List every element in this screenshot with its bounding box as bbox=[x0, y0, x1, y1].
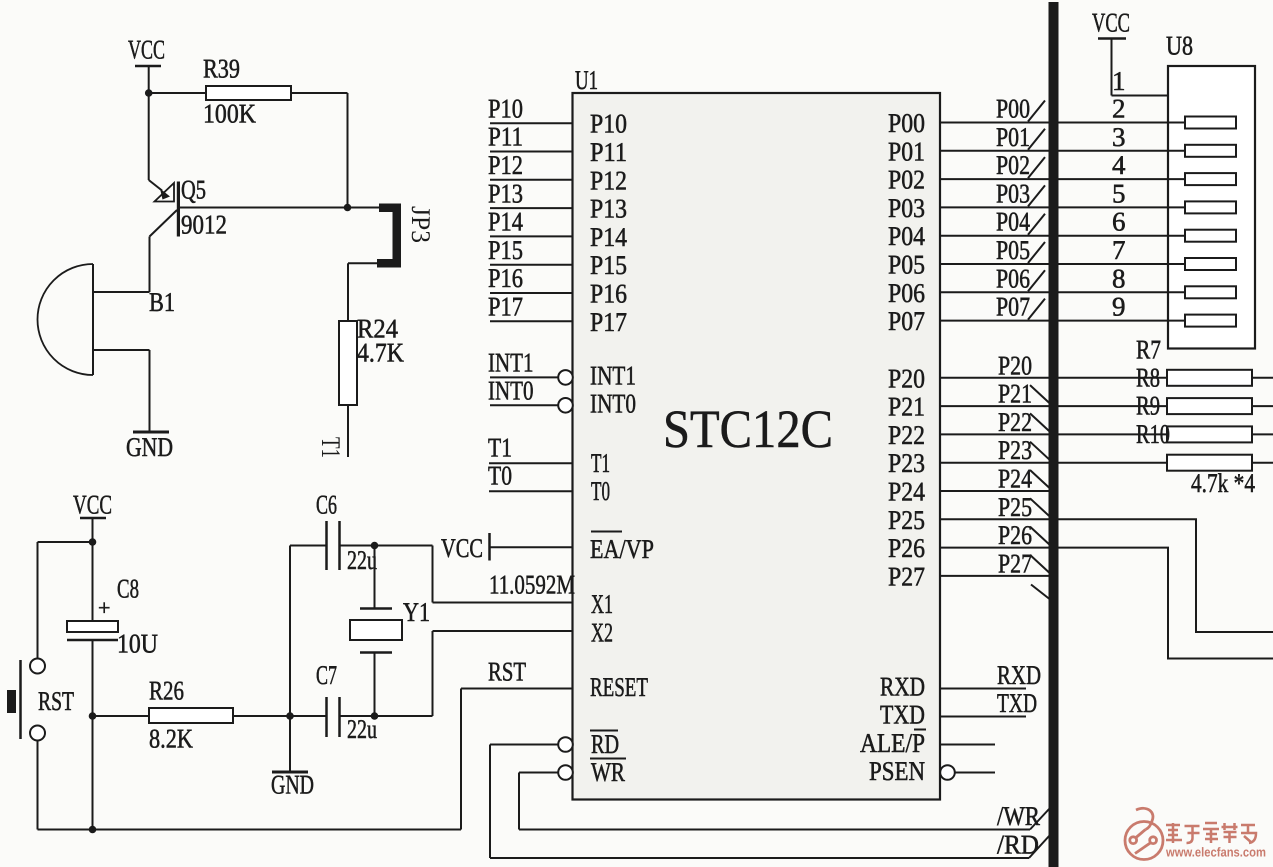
svg-text:P05: P05 bbox=[888, 250, 925, 280]
svg-text:VCC: VCC bbox=[73, 490, 112, 520]
svg-text:6: 6 bbox=[1112, 207, 1126, 237]
svg-text:GND: GND bbox=[271, 770, 314, 800]
svg-text:4.7K: 4.7K bbox=[357, 338, 404, 368]
svg-text:5: 5 bbox=[1112, 178, 1126, 208]
svg-text:P26: P26 bbox=[888, 533, 925, 563]
svg-text:T1: T1 bbox=[488, 432, 512, 462]
svg-text:8: 8 bbox=[1112, 263, 1126, 293]
svg-text:U8: U8 bbox=[1166, 31, 1193, 61]
svg-text:R10: R10 bbox=[1136, 419, 1170, 449]
svg-text:C7: C7 bbox=[316, 660, 337, 690]
svg-text:X2: X2 bbox=[591, 618, 613, 648]
svg-text:4: 4 bbox=[1112, 150, 1126, 180]
svg-text:P20: P20 bbox=[998, 350, 1032, 380]
svg-text:P02: P02 bbox=[996, 150, 1030, 180]
svg-text:P10: P10 bbox=[590, 109, 627, 139]
svg-text:P06: P06 bbox=[888, 278, 925, 308]
svg-text:P24: P24 bbox=[998, 464, 1032, 494]
svg-text:22u: 22u bbox=[347, 714, 377, 744]
svg-text:+: + bbox=[98, 595, 110, 620]
svg-text:P13: P13 bbox=[488, 178, 523, 208]
svg-text:P01: P01 bbox=[888, 136, 925, 166]
svg-text:P23: P23 bbox=[888, 448, 925, 478]
svg-text:INT0: INT0 bbox=[488, 376, 534, 406]
svg-text:VCC: VCC bbox=[1092, 8, 1130, 38]
svg-text:9012: 9012 bbox=[181, 210, 227, 240]
svg-text:P13: P13 bbox=[590, 194, 627, 224]
svg-text:P17: P17 bbox=[488, 292, 523, 322]
svg-text:TXD: TXD bbox=[880, 700, 925, 730]
svg-text:X1: X1 bbox=[591, 589, 613, 619]
svg-text:P15: P15 bbox=[488, 235, 523, 265]
svg-text:R26: R26 bbox=[149, 676, 184, 706]
svg-text:GND: GND bbox=[126, 432, 173, 462]
svg-text:P11: P11 bbox=[488, 122, 523, 152]
svg-text:R9: R9 bbox=[1136, 391, 1160, 421]
svg-text:P02: P02 bbox=[888, 165, 925, 195]
svg-text:P14: P14 bbox=[590, 222, 627, 252]
svg-text:100K: 100K bbox=[203, 99, 256, 129]
svg-text:P14: P14 bbox=[488, 207, 523, 237]
svg-text:4.7k *4: 4.7k *4 bbox=[1191, 468, 1255, 498]
svg-text:P05: P05 bbox=[996, 235, 1030, 265]
svg-text:P21: P21 bbox=[888, 392, 925, 422]
svg-text:TXD: TXD bbox=[997, 688, 1037, 718]
svg-text:11.0592M: 11.0592M bbox=[489, 570, 575, 600]
svg-text:RST: RST bbox=[488, 657, 526, 687]
svg-text:www.elecfans.com: www.elecfans.com bbox=[1165, 845, 1266, 860]
svg-text:P27: P27 bbox=[998, 548, 1032, 578]
svg-text:/RD: /RD bbox=[997, 830, 1039, 860]
svg-text:C8: C8 bbox=[117, 574, 139, 604]
svg-text:Q5: Q5 bbox=[181, 175, 206, 205]
svg-text:P25: P25 bbox=[888, 505, 925, 535]
svg-text:P04: P04 bbox=[888, 221, 925, 251]
svg-text:STC12C: STC12C bbox=[663, 399, 833, 459]
svg-text:P17: P17 bbox=[590, 307, 627, 337]
svg-text:P22: P22 bbox=[998, 407, 1032, 437]
svg-text:P11: P11 bbox=[590, 137, 627, 167]
svg-text:P07: P07 bbox=[996, 292, 1030, 322]
svg-text:10U: 10U bbox=[117, 629, 158, 659]
svg-text:P26: P26 bbox=[998, 520, 1032, 550]
svg-text:RXD: RXD bbox=[880, 672, 925, 702]
svg-text:P06: P06 bbox=[996, 263, 1030, 293]
svg-text:9: 9 bbox=[1112, 292, 1126, 322]
svg-text:PSEN: PSEN bbox=[869, 756, 925, 786]
svg-text:R39: R39 bbox=[203, 54, 240, 84]
svg-text:B1: B1 bbox=[149, 287, 175, 317]
svg-text:T1: T1 bbox=[316, 437, 346, 458]
svg-text:P25: P25 bbox=[998, 492, 1032, 522]
svg-text:P12: P12 bbox=[590, 165, 627, 195]
svg-text:T0: T0 bbox=[488, 460, 512, 490]
svg-text:2: 2 bbox=[1112, 94, 1126, 124]
svg-text:P15: P15 bbox=[590, 250, 627, 280]
svg-text:RD: RD bbox=[591, 729, 619, 759]
svg-text:WR: WR bbox=[591, 757, 625, 787]
svg-text:P04: P04 bbox=[996, 207, 1030, 237]
svg-text:P07: P07 bbox=[888, 306, 925, 336]
svg-text:P00: P00 bbox=[996, 94, 1030, 124]
svg-text:INT1: INT1 bbox=[590, 360, 636, 390]
svg-text:T0: T0 bbox=[591, 476, 610, 506]
svg-text:RESET: RESET bbox=[590, 672, 648, 702]
svg-text:P03: P03 bbox=[888, 193, 925, 223]
svg-text:P10: P10 bbox=[488, 93, 523, 123]
svg-text:EA/VP: EA/VP bbox=[590, 534, 654, 564]
svg-text:P22: P22 bbox=[888, 420, 925, 450]
svg-text:P24: P24 bbox=[888, 477, 925, 507]
svg-text:P20: P20 bbox=[888, 363, 925, 393]
svg-text:P27: P27 bbox=[888, 561, 925, 591]
svg-text:RST: RST bbox=[38, 686, 74, 716]
svg-text:7: 7 bbox=[1112, 235, 1126, 265]
svg-text:Y1: Y1 bbox=[403, 597, 430, 627]
svg-text:RXD: RXD bbox=[997, 660, 1041, 690]
svg-text:1: 1 bbox=[1112, 66, 1126, 96]
svg-text:P16: P16 bbox=[590, 279, 627, 309]
svg-text:ALE/P: ALE/P bbox=[860, 728, 925, 758]
svg-text:R8: R8 bbox=[1136, 363, 1160, 393]
svg-text:U1: U1 bbox=[575, 65, 598, 95]
svg-text:P00: P00 bbox=[888, 108, 925, 138]
svg-text:/WR: /WR bbox=[997, 801, 1040, 831]
svg-text:P03: P03 bbox=[996, 178, 1030, 208]
svg-text:VCC: VCC bbox=[128, 35, 165, 65]
svg-text:8.2K: 8.2K bbox=[149, 724, 193, 754]
svg-text:3: 3 bbox=[1112, 122, 1126, 152]
svg-text:INT1: INT1 bbox=[488, 348, 534, 378]
svg-text:R7: R7 bbox=[1136, 335, 1161, 365]
svg-text:P12: P12 bbox=[488, 150, 523, 180]
svg-text:P16: P16 bbox=[488, 263, 523, 293]
svg-text:VCC: VCC bbox=[441, 533, 483, 563]
svg-text:T1: T1 bbox=[591, 448, 610, 478]
svg-text:JP3: JP3 bbox=[406, 206, 436, 243]
svg-text:P01: P01 bbox=[996, 122, 1030, 152]
svg-text:P23: P23 bbox=[998, 435, 1032, 465]
svg-text:P21: P21 bbox=[998, 379, 1032, 409]
svg-text:INT0: INT0 bbox=[590, 388, 636, 418]
svg-text:22u: 22u bbox=[347, 545, 377, 575]
svg-text:C6: C6 bbox=[316, 490, 337, 520]
